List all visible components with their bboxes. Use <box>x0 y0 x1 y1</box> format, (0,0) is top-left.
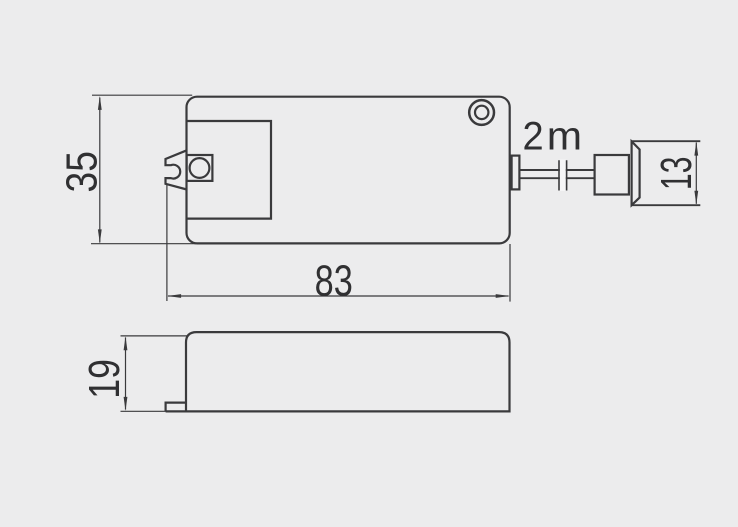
svg-text:35: 35 <box>57 151 107 192</box>
svg-text:19: 19 <box>80 359 128 399</box>
svg-text:83: 83 <box>315 256 353 305</box>
svg-text:2: 2 <box>522 115 543 159</box>
svg-text:m: m <box>547 114 582 159</box>
svg-text:13: 13 <box>651 157 700 190</box>
